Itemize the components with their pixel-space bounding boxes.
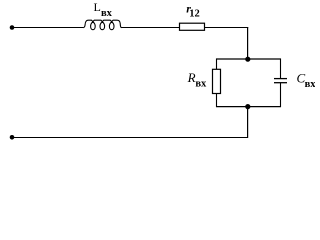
wire: bottom bar of parallel section [216,106,281,108]
svg-text:вх: вх [101,8,113,19]
svg-text:12: 12 [189,9,200,20]
bottom rail wire [12,137,248,139]
terminal dot top-left [10,25,15,30]
wire: inductor to resistor r12 [121,27,180,29]
wire: top-left terminal to inductor [12,27,83,29]
wire: top bar of parallel section [216,58,281,60]
svg-text:вх: вх [195,79,207,90]
wire: right branch top (to C_vx) [280,59,282,79]
capacitor C_vx plate bottom [274,82,287,84]
svg-text:вх: вх [305,79,315,90]
junction dot bottom node [245,104,250,109]
svg-text:R: R [187,70,196,85]
wire: vertical drop from corner to top node [247,27,249,59]
svg-text:L: L [94,0,101,14]
wire: resistor r12 to corner node [205,27,249,29]
wire: left branch bottom (from R_vx) [216,93,218,107]
inductor L_vx coil [83,20,121,30]
resistor r12 body [180,23,205,30]
wire: left branch top (to R_vx) [216,59,218,70]
resistor R_vx body [213,69,221,93]
wire: right branch bottom (from C_vx) [280,83,282,107]
terminal dot bottom-left [10,135,15,140]
wire: vertical from bottom node to bottom rail [247,107,249,139]
capacitor C_vx plate top [274,78,287,80]
junction dot top node [245,57,250,62]
